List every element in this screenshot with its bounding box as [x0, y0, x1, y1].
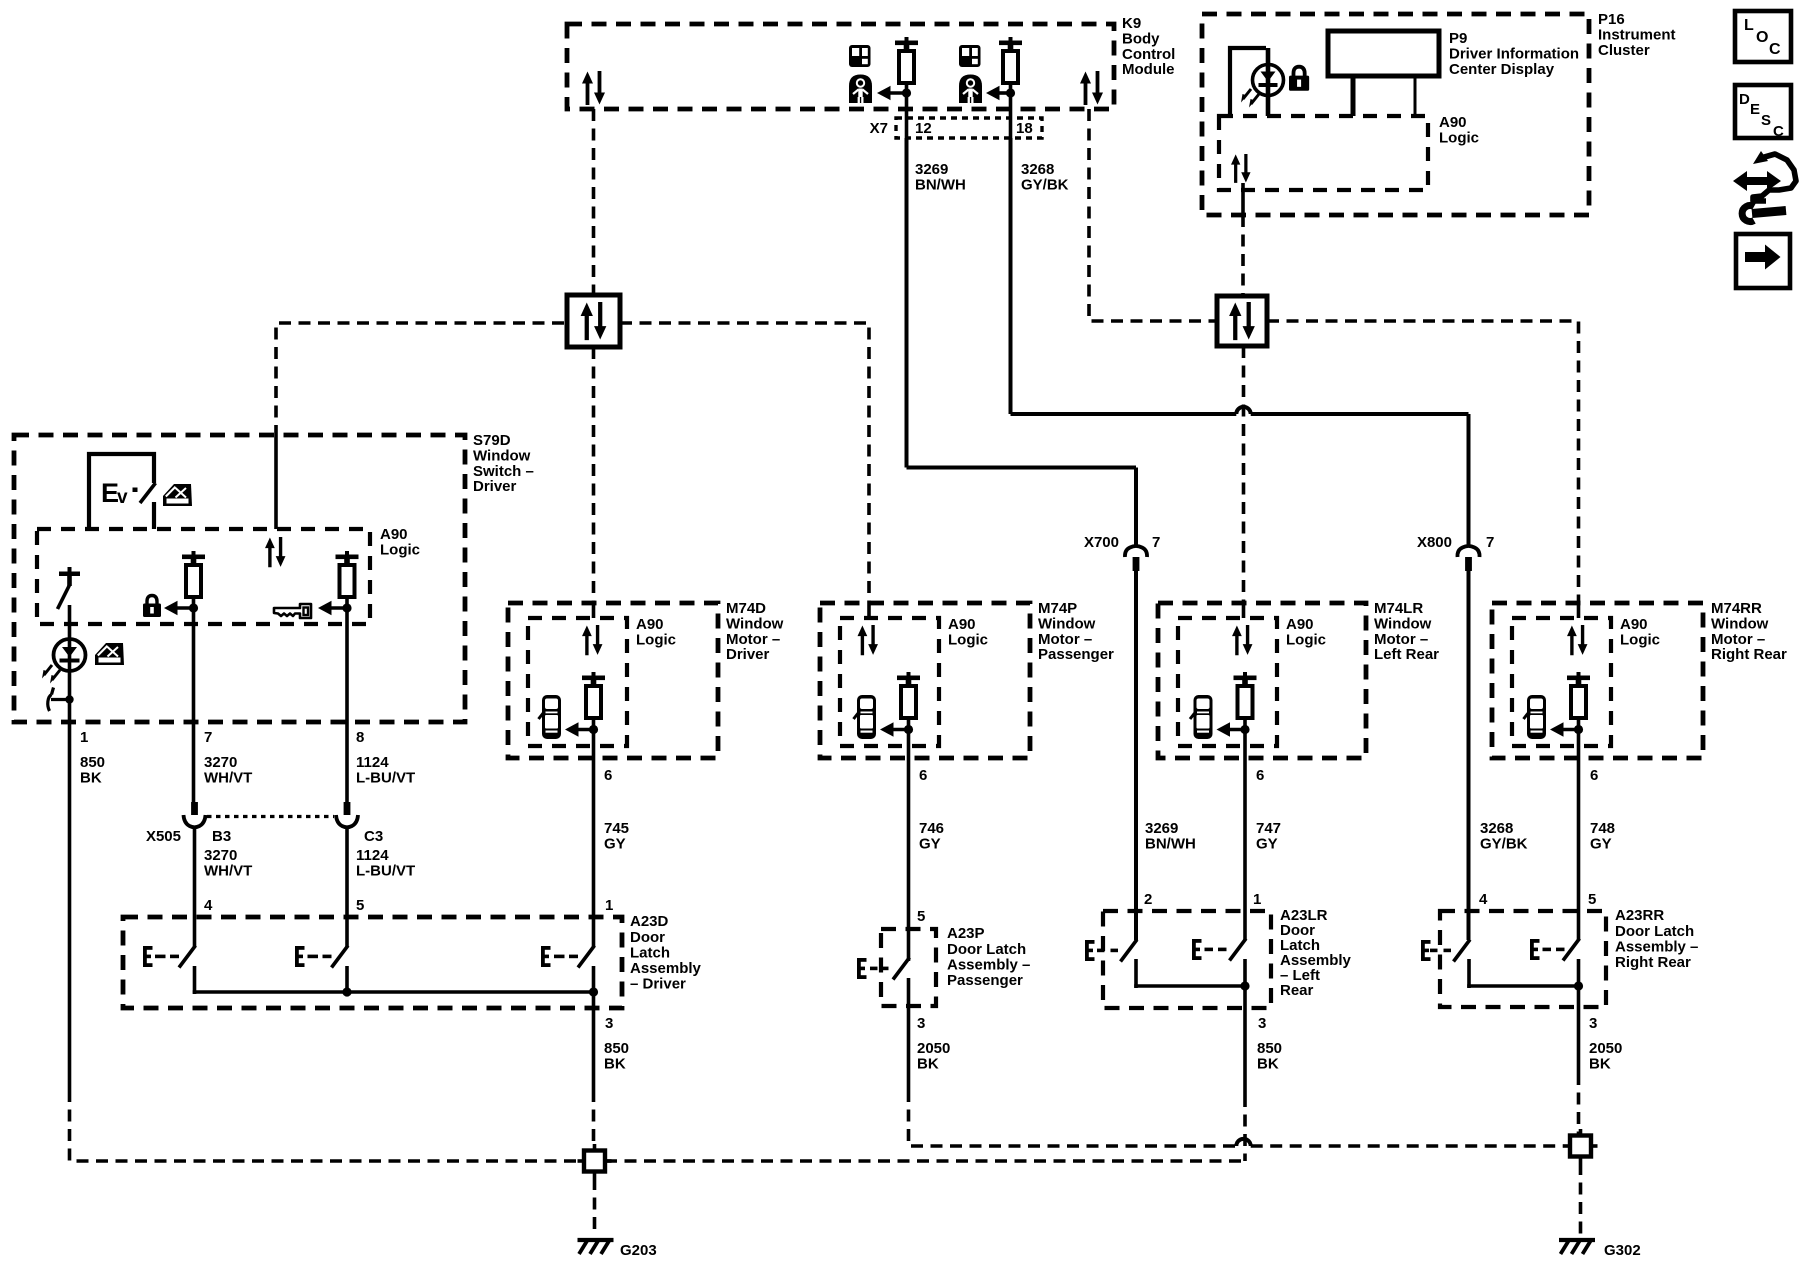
wire switch left lower A23LR [1134, 959, 1138, 988]
svg-text:Logic: Logic [1286, 632, 1326, 649]
svg-text:Left Rear: Left Rear [1374, 646, 1439, 663]
A90 up/down arrows P16 [1231, 154, 1251, 183]
svg-text:WH/VT: WH/VT [204, 863, 252, 880]
module P16 Instrument Cluster box [1202, 14, 1589, 215]
svg-text:Door: Door [630, 929, 665, 946]
wire right junction box to M74RR (dashed) [1267, 321, 1579, 603]
wire switch lower A23P [907, 978, 911, 1006]
connector X505 terminal C3 [336, 802, 358, 827]
svg-text:Center Display: Center Display [1449, 61, 1555, 78]
wire A23RR ground to G302 splice (dashed) [1577, 1073, 1581, 1137]
junction bus A23D right [589, 987, 598, 996]
svg-text:Module: Module [1122, 61, 1175, 78]
latch switch right A23LR (pin 1) [1192, 939, 1246, 961]
icon data-link connector / diagnostics [1733, 151, 1796, 221]
junction bus A23D middle [342, 987, 351, 996]
svg-text:GY/BK: GY/BK [1021, 177, 1069, 194]
wire junction box to M74P (dashed) [620, 323, 869, 603]
junction motor arrow M74LR Window Motor Left Rear [1240, 725, 1249, 734]
indicator LED P16 [1241, 65, 1284, 108]
svg-text:7: 7 [1486, 534, 1494, 551]
svg-text:1: 1 [1253, 891, 1261, 908]
wire enter M74LR Window Motor Left Rear (solid inside) [1242, 603, 1246, 618]
svg-text:Door Latch: Door Latch [947, 941, 1026, 958]
wire ground bus A23D [193, 990, 594, 994]
svg-text:8: 8 [356, 729, 364, 746]
motor module M74LR Window Motor Left Rear box [1158, 603, 1366, 758]
logic A90 box M74LR Window Motor Left Rear [1178, 618, 1277, 746]
icon window glass (LED) [95, 643, 124, 665]
motor drive fuse M74LR Window Motor Left Rear [1234, 672, 1257, 718]
svg-text:Logic: Logic [380, 542, 420, 559]
arrow to car icon M74RR Window Motor Right Rear [1550, 722, 1579, 736]
latch module A23D Door Latch Assembly Driver box [123, 917, 622, 1008]
svg-text:3: 3 [917, 1015, 925, 1032]
svg-text:Assembly –: Assembly – [947, 956, 1030, 973]
wire enter M74P Window Motor Passenger (solid inside) [867, 603, 871, 618]
K9 serial-data up/down arrows left [582, 71, 605, 105]
wire splice to ground G203 (dashed) [593, 1178, 597, 1236]
wire S79D ground (dashed) [70, 1090, 585, 1161]
svg-text:7: 7 [204, 729, 212, 746]
K9 serial-data up/down arrows right [1080, 71, 1103, 105]
logic A90 box M74RR Window Motor Right Rear [1512, 618, 1611, 746]
logic A90 box M74D Window Motor Driver [528, 618, 627, 746]
svg-text:A23D: A23D [630, 913, 669, 930]
icon car M74P Window Motor Passenger [854, 695, 877, 739]
arrow to car icon M74D Window Motor Driver [565, 722, 594, 736]
wire 745 GY M74D to A23D pin 1 [592, 760, 596, 947]
wire 3270 WH/VT to A23D pin 4 [193, 827, 197, 947]
wire S79D to junction box (dashed) [276, 323, 567, 437]
wire switch2 lower A23D [345, 966, 349, 994]
wire A23LR ground to G203 bus (dashed) [1243, 1095, 1247, 1161]
wire fuse to pin 6 M74P Window Motor Passenger [907, 718, 911, 760]
wire A23LR pin 3 down (solid) [1243, 986, 1247, 1095]
svg-text:2: 2 [1144, 891, 1152, 908]
svg-text:G203: G203 [620, 1242, 657, 1259]
A90 up/down arrows M74LR Window Motor Left Rear [1232, 625, 1252, 655]
wire 3268 below X800 to A23RR pin 4 [1467, 571, 1471, 940]
svg-text:C: C [1773, 123, 1784, 140]
wire A23P ground run to G302 (dashed) [909, 1090, 1237, 1146]
wire ground run continue to G302 splice (dashed) [1251, 1144, 1564, 1148]
wire K9 left output to X7 pin 12 [905, 83, 909, 140]
svg-text:Logic: Logic [636, 632, 676, 649]
express switch lower leg [152, 502, 156, 529]
logic A90 box M74P Window Motor Passenger [840, 618, 939, 746]
junction motor arrow M74P Window Motor Passenger [904, 725, 913, 734]
svg-text:Driver: Driver [473, 478, 517, 495]
wire right junction box down to M74LR (dashed) [1242, 346, 1246, 603]
svg-text:Door Latch: Door Latch [1615, 923, 1694, 940]
svg-text:GY: GY [1256, 836, 1278, 853]
svg-text:Latch: Latch [630, 944, 670, 961]
wire lever to pin 1 [68, 605, 72, 722]
door-ajar bracket P16 [1230, 48, 1266, 117]
wire A90 P16 down inside [1241, 183, 1245, 215]
latch module A23RR Door Latch Assembly Right Rear box [1440, 911, 1606, 1007]
wire 3269 below X700 to A23LR pin 2 [1134, 571, 1138, 940]
door handle hook symbol [48, 688, 70, 712]
svg-text:C3: C3 [364, 828, 383, 845]
svg-text:12: 12 [915, 120, 932, 137]
icon car M74LR Window Motor Left Rear [1190, 695, 1213, 739]
connector X505 terminal B3 [184, 802, 206, 827]
svg-text:3: 3 [1258, 1015, 1266, 1032]
wire K9 right output to X7 pin 18 [1009, 83, 1013, 140]
latch switch 1 A23D (pin 4) [143, 946, 196, 968]
wire 3269 BN/WH horizontal run [907, 466, 1137, 470]
svg-text:Passenger: Passenger [947, 972, 1023, 989]
wire 746 GY M74P to A23P pin 5 [907, 760, 911, 961]
junction box splice right (up/down) [1217, 296, 1267, 346]
svg-text:Rear: Rear [1280, 982, 1314, 999]
motor drive fuse M74RR Window Motor Right Rear [1567, 672, 1590, 718]
wire 748 GY M74RR to A23RR pin 5 [1577, 760, 1581, 940]
svg-text:v: v [117, 487, 128, 508]
arrow to key icon [318, 601, 347, 615]
svg-text:A23P: A23P [947, 925, 985, 942]
wire ground bus A23RR [1467, 984, 1578, 988]
express switch bracket Ev [89, 454, 154, 529]
icon window right (K9) [959, 45, 981, 67]
latch switch 3 A23D (pin 1) [541, 946, 595, 968]
svg-text:S: S [1761, 112, 1771, 129]
wire splice to ground G302 (dashed) [1579, 1163, 1583, 1236]
icon forward arrow box [1736, 234, 1790, 288]
svg-text:Assembly: Assembly [630, 960, 702, 977]
junction motor arrow M74D Window Motor Driver [589, 725, 598, 734]
svg-text:GY: GY [1590, 836, 1612, 853]
junction key arrow [342, 603, 351, 612]
wire lock fuse down to pin 7 [192, 597, 196, 803]
wire A23D ground (dashed) [592, 1090, 596, 1146]
svg-text:5: 5 [356, 897, 364, 914]
icon window glass (express) [163, 484, 192, 506]
latch switch left A23RR (pin 4) [1421, 940, 1470, 962]
motor module M74RR Window Motor Right Rear box [1492, 603, 1703, 758]
connector X505 body dotted line [207, 815, 334, 818]
wire express-down input (solid inside S79D) [274, 437, 278, 529]
wire enter M74RR Window Motor Right Rear (solid inside) [1577, 603, 1581, 618]
svg-text:Driver: Driver [726, 646, 770, 663]
svg-text:GY: GY [919, 836, 941, 853]
svg-text:WH/VT: WH/VT [204, 770, 252, 787]
svg-text:Assembly –: Assembly – [1615, 938, 1698, 955]
svg-text:GY: GY [604, 836, 626, 853]
svg-text:GY/BK: GY/BK [1480, 836, 1528, 853]
wire 3269 BN/WH vertical from X7-12 [905, 138, 909, 468]
icon LOC box [1735, 11, 1791, 62]
svg-text:Logic: Logic [948, 632, 988, 649]
svg-text:BK: BK [1257, 1056, 1279, 1073]
svg-text:BN/WH: BN/WH [1145, 836, 1196, 853]
svg-text:L-BU/VT: L-BU/VT [356, 770, 415, 787]
wire switch1 lower A23D [193, 966, 197, 994]
icon padlock P16 [1289, 67, 1309, 91]
svg-text:BN/WH: BN/WH [915, 177, 966, 194]
wire K9 right to right junction box (dashed) [1089, 109, 1217, 321]
svg-text:6: 6 [919, 767, 927, 784]
motor module M74P Window Motor Passenger box [820, 603, 1030, 758]
svg-text:– Driver: – Driver [630, 976, 686, 993]
svg-text:X505: X505 [146, 828, 181, 845]
wire fuse to pin 6 M74D Window Motor Driver [592, 718, 596, 760]
svg-text:A23RR: A23RR [1615, 907, 1664, 924]
display P9 Driver Information Center Display [1328, 31, 1439, 76]
svg-text:BK: BK [917, 1056, 939, 1073]
svg-text:3: 3 [605, 1015, 613, 1032]
wire switch left lower A23RR [1467, 959, 1471, 988]
motor drive fuse M74D Window Motor Driver [582, 672, 605, 718]
svg-text:BK: BK [604, 1056, 626, 1073]
connector X800 [1457, 546, 1479, 571]
wire A23D pin 3 down (solid) [592, 992, 596, 1090]
svg-text:3: 3 [1589, 1015, 1597, 1032]
ground G203 symbol [578, 1240, 614, 1254]
express switch blade [140, 483, 156, 503]
svg-text:7: 7 [1152, 534, 1160, 551]
key-in-ignition fuse S79D [336, 551, 359, 597]
svg-text:1: 1 [80, 729, 88, 746]
wire 1124 L-BU/VT to A23D pin 5 [345, 827, 349, 947]
splice G203 junction [578, 1144, 612, 1178]
svg-text:5: 5 [1588, 891, 1596, 908]
junction bus A23RR [1574, 981, 1583, 990]
latch module A23P Door Latch Assembly Passenger box [881, 929, 936, 1006]
icon window left (K9) [849, 45, 871, 67]
svg-text:6: 6 [1590, 767, 1598, 784]
svg-text:O: O [1756, 29, 1768, 46]
indicator LED S79D [42, 639, 86, 684]
svg-text:1: 1 [605, 897, 613, 914]
icon car M74RR Window Motor Right Rear [1524, 695, 1547, 739]
wire switch3 lower A23D [592, 966, 596, 992]
express mech dash [133, 488, 138, 493]
wire switch right lower A23LR [1243, 959, 1247, 986]
wire 3268 GY/BK vertical from X7-18 [1009, 138, 1013, 414]
driver door window-lock output driver (fuse symbol) K9 left [895, 37, 918, 83]
latch module A23LR Door Latch Assembly Left Rear box [1103, 911, 1271, 1008]
wire S79D 850 BK down (solid) [68, 722, 72, 1090]
svg-text:6: 6 [604, 767, 612, 784]
svg-text:Logic: Logic [1439, 130, 1479, 147]
motor module M74D Window Motor Driver box [508, 603, 718, 758]
arrow to padlock [164, 601, 194, 615]
svg-text:4: 4 [204, 897, 213, 914]
svg-text:Passenger: Passenger [1038, 646, 1114, 663]
wire ground bus A23LR [1134, 984, 1245, 988]
icon DESC box [1735, 85, 1791, 140]
junction hook [65, 695, 73, 703]
logic A90 box P16 [1219, 116, 1428, 190]
wire fuse to pin 6 M74RR Window Motor Right Rear [1577, 718, 1581, 760]
wire enter M74D Window Motor Driver (solid inside) [592, 603, 596, 618]
svg-text:G302: G302 [1604, 1242, 1641, 1259]
svg-text:4: 4 [1479, 891, 1488, 908]
junction K9 left arrow [902, 88, 911, 97]
wire K9 left to junction box (dashed) [592, 109, 596, 295]
wire A23RR pin 3 down (solid) [1577, 986, 1581, 1073]
wire P9 left leg [1351, 76, 1356, 116]
junction K9 right arrow [1006, 88, 1015, 97]
svg-text:Right Rear: Right Rear [1711, 646, 1787, 663]
logic A90 box S79D [37, 529, 370, 624]
svg-text:Cluster: Cluster [1598, 42, 1650, 59]
wire 3268 GY/BK down to X800 [1467, 414, 1471, 547]
svg-text:L-BU/VT: L-BU/VT [356, 863, 415, 880]
wire 747 GY M74LR to A23LR pin 1 [1243, 760, 1247, 940]
arrow to person icon left [877, 86, 907, 100]
wire junction box down to M74D (dashed) [592, 347, 596, 603]
svg-text:6: 6 [1256, 767, 1264, 784]
junction box splice left (up/down) [567, 295, 620, 347]
svg-text:E: E [1750, 101, 1760, 118]
wire fuse to pin 6 M74LR Window Motor Left Rear [1243, 718, 1247, 760]
wire switch right lower A23RR [1577, 959, 1581, 986]
svg-text:5: 5 [917, 908, 925, 925]
svg-text:18: 18 [1016, 120, 1033, 137]
icon key [274, 604, 311, 618]
A90 up/down arrows M74RR Window Motor Right Rear [1567, 625, 1587, 655]
svg-text:Right Rear: Right Rear [1615, 954, 1691, 971]
icon child-lock person left (K9) [849, 75, 872, 104]
icon car M74D Window Motor Driver [539, 695, 562, 739]
switch module S79D Window Switch Driver box [14, 435, 465, 722]
arrow to person icon right [986, 86, 1011, 100]
arrow to car icon M74LR Window Motor Left Rear [1217, 722, 1246, 736]
A90 up/down arrows S79D [265, 537, 285, 567]
A90 up/down arrows M74D Window Motor Driver [582, 625, 602, 655]
svg-text:C: C [1769, 41, 1781, 58]
latch switch left A23LR (pin 2) [1085, 940, 1137, 962]
svg-text:X800: X800 [1417, 534, 1452, 551]
wire P16 to right junction (dashed) [1241, 215, 1245, 297]
wire G203 bus right segment (dashed) [605, 1159, 1245, 1163]
junction bus A23LR [1240, 981, 1249, 990]
wire 3269 BN/WH down to X700 [1134, 468, 1138, 548]
wire key fuse down to pin 8 [345, 597, 349, 803]
splice G302 junction [1564, 1129, 1598, 1163]
lock indicator fuse S79D [182, 551, 205, 597]
svg-text:X7: X7 [870, 120, 888, 137]
wire 3268 GY/BK horizontal run with hop [1011, 407, 1469, 414]
wire LED anode leg P16 [1266, 48, 1271, 116]
connector X7 box [896, 118, 1042, 138]
svg-text:X700: X700 [1084, 534, 1119, 551]
svg-text:D: D [1739, 91, 1750, 108]
svg-text:L: L [1744, 17, 1754, 34]
latch switch A23P [857, 958, 910, 980]
connector X700 [1125, 546, 1147, 571]
hop ground run over A23LR wire [1236, 1139, 1250, 1146]
ground G302 symbol [1559, 1240, 1595, 1254]
wire P9 right leg [1414, 76, 1417, 114]
arrow to car icon M74P Window Motor Passenger [880, 722, 909, 736]
svg-text:BK: BK [1589, 1056, 1611, 1073]
icon padlock S79D [143, 596, 161, 618]
svg-text:BK: BK [80, 770, 102, 787]
window-lock output driver (fuse symbol) K9 right [999, 37, 1022, 83]
junction lock arrow [189, 603, 198, 612]
motor drive fuse M74P Window Motor Passenger [897, 672, 920, 718]
window lock lever switch [58, 567, 81, 609]
A90 up/down arrows M74P Window Motor Passenger [858, 625, 878, 655]
wire A23P pin 3 down (solid) [907, 1006, 911, 1090]
svg-text:B3: B3 [212, 828, 231, 845]
junction motor arrow M74RR Window Motor Right Rear [1574, 725, 1583, 734]
icon child-lock person right (K9) [959, 75, 982, 104]
svg-text:Logic: Logic [1620, 632, 1660, 649]
module K9 Body Control Module box [567, 24, 1114, 109]
latch switch right A23RR (pin 5) [1530, 939, 1580, 961]
latch switch 2 A23D (pin 5) [295, 946, 348, 968]
